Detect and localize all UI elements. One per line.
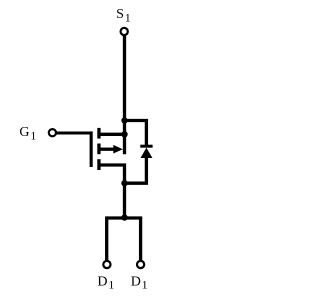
svg-text:D1: D1 xyxy=(97,274,114,291)
transistor Q1 gate plate xyxy=(90,131,93,167)
node drain-diode junction xyxy=(121,180,127,186)
wire body stub xyxy=(99,148,115,151)
transistor Q1 channel bar (source) xyxy=(97,128,100,139)
node drain bus junction xyxy=(121,214,127,220)
transistor Q1 channel bar (drain) xyxy=(97,159,100,170)
node source-diode junction xyxy=(121,117,127,123)
transistor Q1 channel bar (body) xyxy=(97,144,100,155)
svg-text:S1: S1 xyxy=(116,7,131,24)
node source-stub junction xyxy=(121,131,127,137)
terminal D1 left xyxy=(103,261,110,268)
body arrow head xyxy=(113,145,123,154)
terminal D1 right xyxy=(137,261,144,268)
wire drain bus and leads xyxy=(107,218,141,261)
diode body (anode triangle) xyxy=(141,148,153,158)
terminal G1 xyxy=(49,129,56,136)
wire diode bottom branch xyxy=(125,157,147,184)
svg-text:D1: D1 xyxy=(131,274,148,291)
wire source stub xyxy=(99,133,125,136)
wire source vertical xyxy=(123,35,126,154)
terminal S1 xyxy=(121,28,128,35)
svg-text:G1: G1 xyxy=(19,125,36,142)
wire gate lead xyxy=(56,132,91,135)
wire drain stub and vertical xyxy=(99,165,125,218)
diode body (cathode bar) xyxy=(140,145,152,148)
wire diode top branch xyxy=(125,121,147,147)
